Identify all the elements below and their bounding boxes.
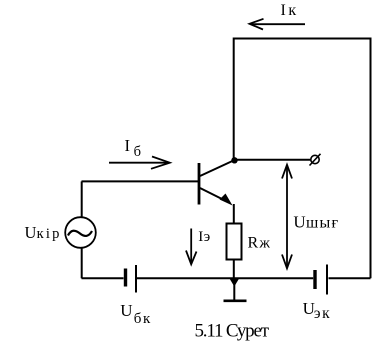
svg-text:шығ: шығ <box>306 214 338 231</box>
svg-text:U: U <box>293 212 305 231</box>
svg-text:U: U <box>25 223 37 242</box>
svg-text:эк: эк <box>314 305 330 322</box>
svg-text:I: I <box>125 136 131 155</box>
svg-text:кір: кір <box>37 226 60 242</box>
svg-text:5.11 Сурет: 5.11 Сурет <box>195 320 270 341</box>
svg-text:Iэ: Iэ <box>198 229 210 245</box>
svg-text:ж: ж <box>259 236 271 252</box>
svg-text:бк: бк <box>134 311 151 327</box>
svg-text:Iк: Iк <box>281 2 297 19</box>
svg-text:б: б <box>134 144 141 160</box>
svg-text:R: R <box>248 235 259 252</box>
svg-text:U: U <box>120 301 132 320</box>
